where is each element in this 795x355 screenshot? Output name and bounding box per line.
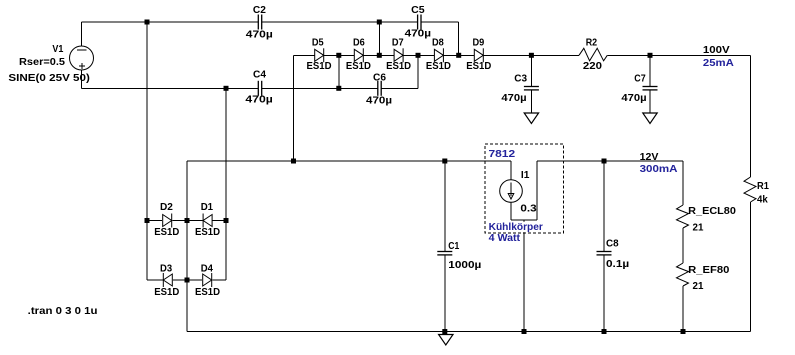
- ground below bottom rail: [439, 335, 453, 346]
- svg-text:C3: C3: [514, 73, 527, 84]
- wire D2 row left: [147, 220, 162, 222]
- current source I1 arrow: [510, 183, 512, 197]
- voltage source V1 circle: [70, 46, 94, 70]
- diode D2: [163, 215, 172, 227]
- diode D9: [474, 49, 483, 61]
- wire riser D5-D6 junction down to C6 row: [338, 55, 340, 88]
- svg-text:ES1D: ES1D: [346, 61, 371, 72]
- svg-text:4k: 4k: [757, 194, 768, 205]
- capacitor C1: [437, 251, 452, 253]
- junction D5-D6: [336, 53, 341, 58]
- svg-text:D4: D4: [201, 264, 214, 275]
- wire 12V row C8 to right corner: [604, 160, 683, 162]
- wire C7 to ground: [649, 90, 651, 113]
- svg-text:D1: D1: [201, 202, 214, 213]
- wire C3 drop from output rail: [530, 55, 532, 86]
- wire D9 to R2: [483, 54, 579, 56]
- svg-text:.tran 0 3 0 1u: .tran 0 3 0 1u: [28, 306, 98, 317]
- svg-text:21: 21: [693, 281, 704, 292]
- junction 0V row / diode ladder riser: [291, 159, 296, 164]
- svg-text:C1: C1: [448, 241, 459, 252]
- regulator dashed box 7812: [485, 144, 564, 233]
- svg-text:D3: D3: [160, 264, 173, 275]
- svg-text:C5: C5: [411, 5, 425, 16]
- svg-text:R1: R1: [757, 181, 769, 192]
- wire D4 to right riser: [212, 279, 226, 281]
- svg-text:R_EF80: R_EF80: [688, 265, 730, 276]
- wire D2 to D1: [173, 220, 203, 222]
- svg-text:470µ: 470µ: [245, 95, 273, 106]
- junction D7-D8: [416, 53, 421, 58]
- diode D4: [203, 274, 212, 286]
- svg-text:12V: 12V: [640, 152, 659, 163]
- wire C6 to right corner: [381, 87, 418, 89]
- wire top rail from V1 to C2: [82, 21, 259, 23]
- svg-text:470µ: 470µ: [621, 93, 646, 104]
- svg-text:ES1D: ES1D: [386, 61, 411, 72]
- svg-text:D5: D5: [312, 37, 324, 48]
- wire I1 ground drop: [523, 220, 525, 331]
- wire top rail C5 to right corner: [421, 21, 459, 23]
- wire mid-left riser from mid rail down to D1 row: [225, 88, 227, 220]
- wire D1 to right riser: [213, 220, 227, 222]
- wire 12V row to C8: [537, 160, 604, 162]
- capacitor C3: [524, 86, 539, 88]
- svg-text:470µ: 470µ: [246, 29, 273, 40]
- svg-text:25mA: 25mA: [703, 58, 734, 69]
- diode D8: [434, 49, 443, 61]
- junction bottom rail / C8: [602, 329, 607, 334]
- wire center riser D2-D1 junction to D3-D4 junction: [186, 221, 188, 281]
- svg-text:C6: C6: [373, 72, 386, 83]
- current source I1 circle: [500, 180, 523, 203]
- wire C8 riser: [603, 161, 605, 252]
- wire D7 to D8: [403, 54, 434, 56]
- svg-text:R_ECL80: R_ECL80: [688, 206, 736, 217]
- wire C1 riser: [444, 161, 446, 252]
- svg-text:ES1D: ES1D: [307, 61, 332, 72]
- svg-text:D7: D7: [392, 37, 404, 48]
- wire riser C6 right corner up to D7-D8 junction: [417, 55, 419, 88]
- wire riser D6-D7 junction up to top rail: [378, 22, 380, 55]
- wire I1 output stub: [510, 202, 512, 220]
- capacitor C6: [377, 81, 379, 96]
- svg-text:470µ: 470µ: [366, 95, 392, 106]
- svg-text:ES1D: ES1D: [195, 227, 220, 238]
- wire drop from top rail corner to D8-D9 junction: [458, 22, 460, 55]
- junction D2 row left: [145, 218, 150, 223]
- wire D8 to D9: [443, 54, 474, 56]
- wire 0V row left corner down: [186, 161, 188, 221]
- wire R_EF80 to bottom rail: [682, 286, 684, 332]
- wire D6 to D7: [363, 54, 394, 56]
- wire right edge drop to R1: [750, 55, 752, 177]
- diode D3: [163, 274, 172, 286]
- capacitor C5: [417, 15, 419, 30]
- wire R1 to bottom rail: [750, 202, 752, 332]
- svg-text:I1: I1: [521, 170, 530, 181]
- diode D6: [354, 49, 363, 61]
- svg-text:D8: D8: [432, 37, 444, 48]
- wire I1 input stub: [510, 161, 512, 180]
- capacitor C8: [597, 251, 612, 253]
- junction bottom rail / load divider: [681, 329, 686, 334]
- wire diode row start corner to D5: [294, 54, 315, 56]
- wire top rail C2 to junction above D6-D7: [262, 21, 380, 23]
- wire left riser D2 row to D3 row: [146, 221, 148, 281]
- wire I1 bottom link: [511, 219, 537, 221]
- svg-text:ES1D: ES1D: [426, 61, 451, 72]
- wire C3 to ground: [530, 90, 532, 113]
- svg-text:ES1D: ES1D: [466, 61, 491, 72]
- svg-text:1000µ: 1000µ: [448, 260, 481, 271]
- junction top rail / D6-D7 riser: [377, 20, 382, 25]
- wire D5 to D6: [324, 54, 355, 56]
- diode D1: [203, 215, 212, 227]
- svg-text:100V: 100V: [703, 45, 730, 56]
- junction D3-D4: [185, 278, 190, 283]
- capacitor C7: [643, 86, 658, 88]
- svg-text:D2: D2: [160, 202, 173, 213]
- svg-text:ES1D: ES1D: [154, 227, 179, 238]
- svg-text:Rser=0.5: Rser=0.5: [19, 57, 65, 68]
- junction bottom rail / regulator ground: [522, 329, 527, 334]
- wire mid rail V1 to C4: [82, 87, 259, 89]
- resistor R2: [579, 48, 607, 61]
- wire C8 to bottom rail: [603, 255, 605, 332]
- wire bottom rail: [187, 331, 751, 333]
- wire R2 to C7 junction and right corner: [607, 54, 750, 56]
- wire mid rail C4 to C6-row junction: [262, 87, 339, 89]
- wire 0V row C1 junction to regulator input: [445, 160, 511, 162]
- junction D6-D7: [377, 53, 382, 58]
- svg-text:R2: R2: [586, 38, 598, 49]
- wire drop 12V corner to R_ECL80: [682, 161, 684, 205]
- svg-text:C8: C8: [606, 238, 619, 249]
- capacitor C2: [257, 15, 259, 30]
- wire D3 to D4: [173, 279, 202, 281]
- resistor R_EF80: [677, 263, 689, 286]
- svg-text:470µ: 470µ: [501, 93, 526, 104]
- wire regulator output riser: [536, 161, 538, 220]
- svg-text:D9: D9: [473, 37, 485, 48]
- svg-text:220: 220: [583, 61, 603, 72]
- svg-text:SINE(0 25V 50): SINE(0 25V 50): [8, 73, 90, 84]
- svg-text:ES1D: ES1D: [195, 287, 220, 298]
- junction D8-D9: [456, 53, 461, 58]
- junction top rail / left riser: [145, 20, 150, 25]
- wire C1 to bottom rail: [444, 255, 446, 332]
- wire left riser from top rail down to D2 row: [146, 22, 148, 221]
- resistor R_ECL80: [677, 205, 689, 228]
- capacitor C4: [257, 81, 259, 96]
- wire R_ECL80 to R_EF80: [682, 228, 684, 263]
- junction output rail / C7: [648, 53, 653, 58]
- svg-text:300mA: 300mA: [640, 164, 678, 175]
- resistor R1: [744, 177, 756, 202]
- svg-text:0.1µ: 0.1µ: [606, 259, 629, 270]
- svg-text:D6: D6: [353, 37, 365, 48]
- svg-text:21: 21: [693, 222, 704, 233]
- junction mid rail / C6 row: [336, 86, 341, 91]
- wire C6 row junction to C6: [339, 87, 378, 89]
- ground below C7: [643, 113, 657, 124]
- voltage source V1 minus mark: [77, 49, 87, 51]
- diode D5: [315, 49, 324, 61]
- junction D2-D1: [185, 218, 190, 223]
- wire V1 top stub: [81, 22, 83, 47]
- wire V1 bottom stub: [81, 70, 83, 89]
- svg-text:0.3: 0.3: [520, 204, 537, 215]
- junction D1 row right: [224, 218, 229, 223]
- label regulator Kühlkörper: [488, 222, 545, 232]
- wire drop diode row left corner to 0V row: [293, 55, 295, 161]
- diode D7: [394, 49, 403, 61]
- svg-text:C4: C4: [253, 70, 266, 81]
- svg-text:470µ: 470µ: [405, 29, 432, 40]
- svg-text:4 Watt: 4 Watt: [489, 233, 521, 244]
- junction mid rail / mid-left riser: [224, 86, 229, 91]
- junction output rail / C3: [529, 53, 534, 58]
- wire center riser D3-D4 junction to bottom rail: [186, 280, 188, 332]
- svg-text:C7: C7: [634, 73, 646, 84]
- svg-text:7812: 7812: [489, 149, 516, 160]
- wire mid-left riser D1 row to D4 row: [225, 221, 227, 281]
- svg-text:V1: V1: [52, 44, 63, 55]
- junction 0V row / C1: [442, 159, 447, 164]
- junction 12V row / C8: [602, 159, 607, 164]
- svg-text:C2: C2: [253, 5, 266, 16]
- wire D3 row left: [147, 279, 163, 281]
- ground below C3: [524, 113, 538, 124]
- wire 0V row from corner to C1 junction: [187, 160, 445, 162]
- wire C7 drop from output rail: [649, 55, 651, 86]
- voltage source V1 plus mark: [79, 65, 85, 67]
- wire top rail junction to C5: [379, 21, 417, 23]
- svg-text:ES1D: ES1D: [154, 287, 179, 298]
- junction bottom rail / C1: [442, 329, 447, 334]
- svg-text:Kühlkörper: Kühlkörper: [489, 222, 543, 233]
